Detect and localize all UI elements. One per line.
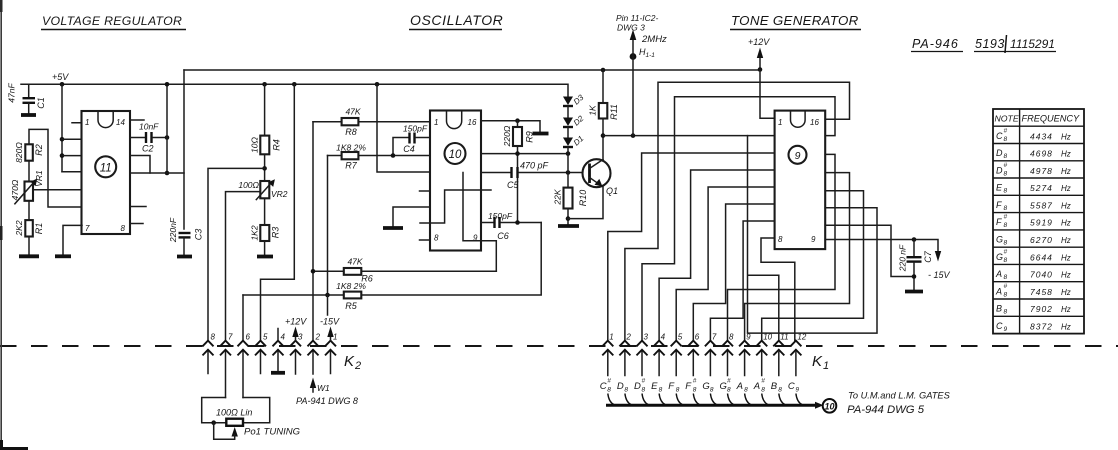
svg-text:8: 8: [727, 387, 731, 394]
wire IC9 pin10 to C7 node: [825, 225, 914, 276]
svg-text:2: 2: [354, 360, 361, 372]
wire IC11 pin14 stub: [130, 119, 144, 121]
wire rail down jog to K2 pin 5: [261, 84, 295, 340]
wire collector up to R11 node: [602, 136, 604, 160]
wire rail drop to C3: [183, 70, 185, 229]
svg-text:1K8 2%: 1K8 2%: [336, 281, 366, 291]
svg-text:C5: C5: [507, 180, 519, 190]
svg-text:D: D: [996, 165, 1003, 175]
svg-text:8: 8: [1004, 240, 1008, 247]
svg-text:2MHz: 2MHz: [641, 34, 667, 45]
svg-text:9: 9: [795, 387, 799, 394]
resistor R4 10ohm: [264, 84, 266, 135]
svg-text:1K2: 1K2: [250, 225, 260, 240]
svg-text:Hz: Hz: [1061, 236, 1071, 245]
SECTION: tone generator: [608, 37, 951, 341]
svg-text:5: 5: [678, 333, 683, 342]
svg-text:220 nF: 220 nF: [898, 244, 908, 272]
scan edge artifacts: [0, 0, 2, 450]
wire K1 pin9 wrap to IC9 right: [745, 173, 850, 341]
resistor R5 1K8: [243, 223, 541, 296]
transistor Q1: [583, 159, 611, 187]
wire K1 pin11 wrap with jog to IC9 right: [748, 136, 878, 341]
svg-text:Po1 TUNING: Po1 TUNING: [244, 427, 300, 438]
svg-text:47nF: 47nF: [7, 83, 17, 103]
svg-text:5274: 5274: [1030, 183, 1053, 193]
wire x62 down to IC11 pins: [61, 84, 63, 171]
wire IC10 left pin to ground: [393, 207, 430, 226]
svg-text:5193: 5193: [975, 37, 1005, 51]
svg-text:6270: 6270: [1030, 235, 1053, 245]
svg-text:4698: 4698: [1030, 149, 1053, 159]
svg-text:9: 9: [795, 150, 801, 162]
wire K1 pin3 stair over top to IC9 pin15: [642, 97, 835, 341]
svg-text:A: A: [995, 269, 1002, 279]
svg-text:470 pF: 470 pF: [520, 161, 549, 171]
svg-text:6644: 6644: [1030, 252, 1053, 262]
wire R7 left down to R5 node: [327, 156, 329, 296]
SECTION: voltage regulator: [7, 70, 761, 341]
W1 arrow into K2 pin2: [310, 378, 316, 389]
svg-text:#: #: [642, 378, 646, 385]
svg-text:7: 7: [85, 224, 90, 233]
svg-text:Hz: Hz: [1061, 150, 1071, 159]
svg-text:R2: R2: [34, 144, 44, 156]
wire IC11 right staircase pin: [130, 156, 150, 174]
wire -15V stub from R5 node: [327, 295, 329, 315]
IC U11: [82, 111, 131, 234]
svg-text:+12V: +12V: [748, 37, 770, 47]
K2 lower pin tails: [208, 352, 331, 398]
svg-text:8: 8: [607, 387, 611, 394]
svg-text:Hz: Hz: [1061, 305, 1071, 314]
svg-text:6: 6: [246, 333, 251, 342]
svg-text:220nF: 220nF: [168, 217, 178, 243]
svg-text:1: 1: [609, 333, 613, 342]
svg-text:6: 6: [695, 333, 700, 342]
wire emitter to R10 node: [568, 186, 603, 219]
ground under R3: [257, 255, 273, 259]
svg-text:10: 10: [763, 333, 772, 342]
svg-text:16: 16: [810, 118, 819, 127]
wire IC10 internal cross link: [420, 190, 491, 223]
wire IC9 pin8 to K1 pin12: [761, 238, 795, 341]
svg-text:Hz: Hz: [1061, 271, 1071, 280]
svg-text:7: 7: [712, 333, 717, 342]
svg-text:8: 8: [1004, 170, 1008, 177]
frequency table frame: [993, 109, 1084, 334]
svg-text:G: G: [996, 252, 1003, 262]
svg-text:C: C: [996, 321, 1003, 331]
svg-text:8372: 8372: [1030, 321, 1053, 331]
svg-text:2: 2: [625, 333, 631, 342]
svg-text:To U.M.and L.M. GATES: To U.M.and L.M. GATES: [848, 391, 951, 401]
svg-text:100Ω Lin: 100Ω Lin: [216, 408, 252, 418]
svg-text:VOLTAGE REGULATOR: VOLTAGE REGULATOR: [42, 14, 182, 28]
capacitor C1: [28, 84, 30, 97]
resistor R7 1K8: [328, 155, 431, 157]
svg-text:9: 9: [1004, 326, 1008, 333]
svg-text:R4: R4: [272, 139, 282, 151]
svg-text:Hz: Hz: [1061, 132, 1071, 141]
resistor R10 22K: [567, 173, 569, 188]
wire IC10 left stub low: [420, 239, 431, 241]
wire IC10 pin9 loop to R6: [481, 241, 496, 271]
svg-text:8: 8: [778, 235, 783, 244]
svg-text:Pin 11-IC2-: Pin 11-IC2-: [616, 13, 659, 23]
diode D2: [563, 118, 573, 127]
svg-text:4: 4: [281, 333, 286, 342]
svg-text:B: B: [996, 304, 1002, 314]
capacitor C2 10nF: [130, 137, 145, 139]
svg-text:12: 12: [797, 333, 806, 342]
svg-text:#: #: [1004, 283, 1008, 290]
wire +12V to IC9 pin1: [760, 70, 775, 119]
IC U10: [430, 111, 481, 251]
svg-text:3: 3: [644, 333, 649, 342]
SECTION: artifacts: [0, 0, 28, 450]
+5V rail: [21, 83, 567, 85]
svg-text:Hz: Hz: [1061, 288, 1071, 297]
svg-text:8: 8: [1004, 205, 1008, 212]
svg-text:#: #: [727, 378, 731, 385]
svg-text:2K2: 2K2: [14, 220, 24, 236]
K2 pin4 upper stub: [277, 329, 279, 341]
svg-text:#: #: [1004, 214, 1008, 221]
svg-text:W1: W1: [317, 383, 330, 393]
capacitor C7 220nF: [913, 240, 915, 257]
svg-text:1115291: 1115291: [1010, 37, 1055, 51]
svg-text:FREQUENCY: FREQUENCY: [1022, 114, 1081, 124]
svg-text:14: 14: [116, 118, 125, 127]
resistor R3 1K2: [264, 198, 266, 225]
svg-text:Hz: Hz: [1061, 219, 1071, 228]
svg-text:-15V: -15V: [320, 317, 340, 327]
resistor R2 820ohm: [29, 129, 82, 207]
svg-text:8: 8: [676, 387, 680, 394]
diode stack from rail: [567, 84, 568, 96]
svg-text:C: C: [600, 381, 607, 392]
svg-text:R8: R8: [345, 127, 357, 137]
svg-text:Hz: Hz: [1061, 253, 1071, 262]
wire IC11 left pin stubs: [62, 123, 82, 172]
wire IC11 right stubs: [130, 207, 146, 224]
svg-text:C2: C2: [142, 144, 154, 154]
svg-text:8: 8: [1004, 309, 1008, 316]
svg-text:8: 8: [778, 387, 782, 394]
svg-text:D: D: [617, 381, 624, 392]
svg-text:C7: C7: [923, 250, 933, 262]
wire K1 pin8 wrap to IC9 right: [728, 154, 836, 340]
SECTION: titles: [41, 12, 1056, 60]
wire IC10 left stub: [420, 190, 431, 192]
svg-text:11: 11: [780, 333, 788, 342]
svg-text:820Ω: 820Ω: [14, 142, 24, 163]
svg-text:Hz: Hz: [1061, 167, 1071, 176]
resistor R6 47K: [313, 270, 496, 272]
svg-text:7458: 7458: [1030, 287, 1053, 297]
resistor R11 1K: [601, 68, 606, 73]
svg-text:8: 8: [211, 333, 216, 342]
svg-text:K: K: [812, 353, 823, 370]
svg-text:#: #: [1004, 162, 1008, 169]
wire R4 node to K2 pin 8: [208, 168, 265, 340]
svg-text:F: F: [996, 200, 1002, 210]
svg-text:OSCILLATOR: OSCILLATOR: [410, 12, 503, 28]
svg-text:1K8 2%: 1K8 2%: [336, 143, 366, 153]
SECTION: connectors: [0, 317, 1118, 440]
svg-text:7902: 7902: [1030, 304, 1053, 314]
node rail to IC10 pin drop: [375, 82, 380, 87]
svg-text:220Ω: 220Ω: [502, 125, 512, 147]
potentiometer Po1 100 ohm Lin: [202, 398, 270, 423]
svg-text:8: 8: [1004, 136, 1008, 143]
svg-text:- 15V: - 15V: [928, 270, 951, 280]
svg-text:10nF: 10nF: [139, 122, 159, 132]
svg-text:8: 8: [642, 387, 646, 394]
wire K1 pin10 wrap to IC9 right: [762, 191, 864, 341]
wire 2MHz vertical: [632, 57, 634, 136]
K1 note leads to bus: [608, 394, 802, 405]
K1 lower pin tails: [608, 352, 796, 376]
svg-text:PA-944 DWG 5: PA-944 DWG 5: [847, 404, 925, 416]
svg-text:#: #: [1004, 127, 1008, 134]
node: rail tap for IC11 left pins: [60, 82, 65, 87]
svg-text:150pF: 150pF: [403, 124, 428, 134]
svg-text:A: A: [995, 286, 1002, 296]
svg-text:3: 3: [298, 333, 303, 342]
svg-text:R7: R7: [345, 161, 357, 171]
wire K1 pin6 stair to IC9: [693, 204, 774, 341]
svg-text:8: 8: [1004, 274, 1008, 281]
capacitor C4 150pF: [393, 138, 409, 156]
svg-text:11: 11: [100, 163, 112, 175]
wire IC11 pin7 to ground: [63, 225, 82, 254]
svg-text:2: 2: [315, 333, 321, 342]
wire IC10 pin16 to R9 and ground: [481, 121, 540, 132]
svg-text:8: 8: [659, 387, 663, 394]
svg-text:10Ω: 10Ω: [250, 137, 260, 153]
svg-text:PA-941 DWG 8: PA-941 DWG 8: [296, 396, 358, 406]
svg-text:Hz: Hz: [1061, 201, 1071, 210]
wire IC10 internal C5 link: [463, 173, 481, 241]
svg-text:C: C: [788, 381, 795, 392]
svg-text:7: 7: [228, 333, 233, 342]
svg-text:22K: 22K: [553, 189, 563, 205]
svg-text:5: 5: [263, 333, 268, 342]
svg-text:4434: 4434: [1030, 131, 1053, 141]
svg-text:7040: 7040: [1030, 270, 1053, 280]
svg-text:DWG 3: DWG 3: [617, 23, 645, 33]
svg-text:#: #: [761, 378, 765, 385]
svg-text:8: 8: [1004, 153, 1008, 160]
svg-text:10: 10: [824, 401, 834, 411]
svg-text:1K: 1K: [588, 105, 598, 116]
svg-text:8: 8: [761, 387, 765, 394]
svg-text:R3: R3: [271, 227, 281, 239]
svg-text:Hz: Hz: [1061, 322, 1071, 331]
ground bar under K2 pin4: [271, 371, 285, 375]
svg-text:K: K: [344, 353, 355, 370]
svg-text:8: 8: [729, 333, 734, 342]
svg-text:5587: 5587: [1030, 200, 1053, 210]
svg-text:47K: 47K: [345, 107, 360, 117]
svg-text:R1: R1: [34, 223, 44, 235]
svg-text:A: A: [753, 381, 760, 392]
svg-text:F: F: [996, 217, 1002, 227]
capacitor C3 220nF: [179, 232, 191, 234]
wire 2MHz line to IC9: [603, 135, 775, 137]
ground under R1: [19, 254, 39, 258]
svg-text:10: 10: [449, 149, 462, 161]
svg-text:150pF: 150pF: [488, 211, 513, 221]
node R4 to K2 pin8: [262, 166, 267, 171]
svg-text:47K: 47K: [347, 257, 362, 267]
svg-text:#: #: [607, 378, 611, 385]
IC U9: [775, 111, 826, 250]
svg-text:100Ω: 100Ω: [238, 180, 259, 190]
resistor R8 47K: [313, 121, 430, 123]
svg-text:5919: 5919: [1030, 218, 1053, 228]
svg-text:1: 1: [778, 118, 782, 127]
wire IC11 pin to C3 line: [130, 172, 184, 174]
svg-text:E: E: [651, 381, 658, 392]
svg-text:VR1: VR1: [34, 170, 44, 187]
wire VR2 to K2 pin 7: [226, 192, 261, 341]
svg-text:8: 8: [1004, 257, 1008, 264]
potentiometer VR1 470ohm: [25, 182, 34, 201]
svg-text:4: 4: [661, 333, 666, 342]
resistor R9 220ohm: [517, 121, 519, 127]
connector K1: [602, 341, 801, 356]
-15V supply arrow: [935, 251, 941, 262]
ground under C7: [905, 290, 923, 294]
svg-text:8: 8: [693, 387, 697, 394]
wire rail drop to IC10 left pin: [377, 84, 430, 172]
+12V rail: [184, 69, 760, 71]
wire K1 pin1 stair to IC9: [608, 153, 775, 341]
svg-text:D: D: [634, 381, 641, 392]
svg-text:1: 1: [85, 118, 89, 127]
svg-text:+5V: +5V: [52, 72, 69, 82]
node rail to R4: [262, 82, 267, 87]
diode D3: [563, 97, 573, 106]
svg-text:8: 8: [434, 234, 439, 243]
svg-text:G: G: [702, 381, 709, 392]
svg-text:R10: R10: [578, 190, 588, 207]
capacitor C5 470pF: [481, 172, 511, 174]
output bus to gates: [606, 404, 820, 407]
node C2 to rail line: [165, 135, 170, 140]
svg-text:8: 8: [1004, 222, 1008, 229]
wire K1 pin5 stair to IC9: [676, 187, 774, 341]
svg-text:+12V: +12V: [285, 317, 307, 327]
svg-text:R5: R5: [345, 301, 357, 311]
svg-text:C3: C3: [194, 229, 204, 241]
wire R8 left down to K2 pin 2: [312, 122, 314, 341]
svg-text:D: D: [996, 148, 1003, 158]
svg-text:G: G: [996, 235, 1003, 245]
svg-text:8: 8: [710, 387, 714, 394]
potentiometer VR2 100ohm: [260, 181, 269, 198]
ground under R10: [558, 224, 579, 228]
ground under C1: [21, 113, 36, 117]
dashed separation line: [0, 345, 1118, 347]
svg-text:470Ω: 470Ω: [10, 179, 20, 200]
svg-text:R11: R11: [609, 104, 619, 120]
svg-text:C6: C6: [497, 231, 509, 241]
connector K2: [203, 341, 337, 356]
svg-text:9: 9: [811, 235, 816, 244]
svg-text:1: 1: [434, 118, 438, 127]
wire IC9 pin9 to -15V: [825, 240, 938, 256]
node rail to K2 pin5 riser: [292, 82, 297, 87]
svg-text:E: E: [996, 183, 1003, 193]
svg-text:8: 8: [1004, 188, 1008, 195]
resistor R1 2K2: [28, 201, 30, 220]
svg-text:8: 8: [121, 224, 126, 233]
wire K1 pin4 stair to IC9: [659, 170, 775, 341]
svg-text:1: 1: [823, 360, 829, 372]
svg-text:B: B: [771, 381, 778, 392]
svg-text:R9: R9: [525, 131, 535, 143]
svg-text:NOTE: NOTE: [995, 114, 1019, 124]
SECTION: table: [993, 109, 1084, 334]
svg-text:TONE GENERATOR: TONE GENERATOR: [731, 13, 859, 28]
svg-text:Hz: Hz: [1061, 184, 1071, 193]
svg-text:Q1: Q1: [606, 186, 618, 196]
svg-text:A: A: [736, 381, 743, 392]
diode D1: [563, 138, 573, 147]
wire K1 pin2 stair over top to IC9 pin16: [625, 82, 850, 340]
svg-text:8: 8: [1004, 291, 1008, 298]
svg-text:PA-946: PA-946: [912, 37, 959, 51]
svg-text:9: 9: [746, 333, 751, 342]
capacitor C6 150pF: [481, 222, 494, 224]
svg-text:16: 16: [468, 118, 477, 127]
SECTION: oscillator: [243, 57, 775, 341]
svg-text:C4: C4: [403, 144, 415, 154]
svg-text:VR2: VR2: [271, 189, 288, 199]
wire K2 pin6 riser: [242, 295, 244, 341]
wire K1 pin7 stair to IC9: [710, 221, 774, 341]
svg-text:8: 8: [624, 387, 628, 394]
svg-text:#: #: [1004, 248, 1008, 255]
svg-text:8: 8: [744, 387, 748, 394]
svg-text:4978: 4978: [1030, 166, 1053, 176]
svg-text:C: C: [996, 131, 1003, 141]
svg-text:G: G: [720, 381, 727, 392]
wire IC10 pin to diode column: [481, 153, 568, 155]
svg-text:#: #: [693, 378, 697, 385]
svg-text:C1: C1: [36, 97, 46, 109]
